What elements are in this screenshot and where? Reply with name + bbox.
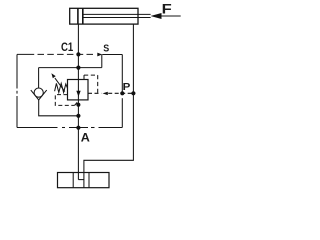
svg-text:S: S	[103, 43, 109, 55]
svg-text:C1: C1	[61, 41, 73, 54]
svg-text:A: A	[81, 131, 90, 145]
svg-text:F: F	[162, 2, 172, 18]
svg-text:P: P	[123, 81, 131, 92]
